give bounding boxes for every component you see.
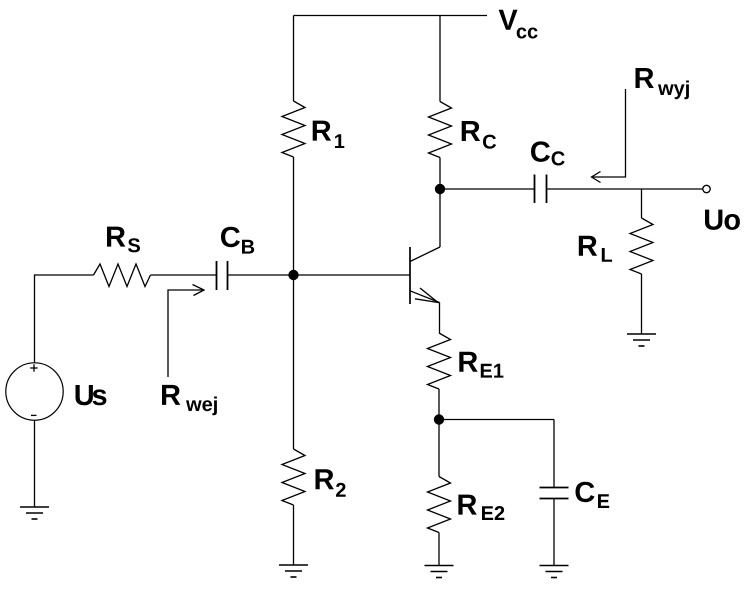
wire RC top [439, 16, 441, 102]
wire RC bottom to collector node [439, 158, 441, 190]
label CC [531, 141, 565, 165]
wire CE top [553, 420, 555, 488]
resistor RC [429, 102, 452, 158]
wire RS right to CB [151, 274, 217, 276]
ground below Us [20, 507, 49, 519]
label Us [76, 385, 107, 405]
wire emitter node to RE2 [438, 420, 440, 477]
wire CE bottom [553, 499, 555, 566]
voltage source Us [6, 363, 63, 420]
label CB [221, 227, 254, 254]
wire R2 bottom [293, 505, 295, 565]
resistor RL [630, 218, 653, 274]
node base junction [288, 270, 298, 280]
label RS [107, 227, 140, 253]
resistor R1 [282, 101, 305, 157]
node emitter junction [434, 414, 444, 424]
arrow Rwej input-resistance pointer [168, 285, 204, 378]
node collector junction [435, 184, 445, 194]
ground below R2 [279, 565, 308, 577]
capacitor CC [535, 175, 547, 204]
wire Vcc top rail [294, 15, 488, 17]
wire emitter node to CE [439, 419, 554, 421]
ground below CE [540, 566, 569, 578]
wire base node to R2 [293, 275, 295, 449]
wire RL bottom [641, 274, 643, 334]
label RL [579, 236, 612, 262]
wire collector [439, 189, 441, 247]
wire R1 top [293, 16, 295, 102]
transistor Q1 [410, 247, 440, 304]
minus sign [31, 414, 37, 416]
label CE [576, 482, 610, 508]
wire source bottom [34, 420, 36, 507]
arrow Rwyj output-resistance pointer [592, 89, 626, 183]
label RE2 [458, 495, 504, 520]
wire base [228, 274, 411, 276]
label RE1 [459, 352, 503, 378]
ground below RE2 [425, 566, 454, 578]
wire RS left to source [35, 275, 94, 363]
plus sign [30, 364, 37, 371]
wire R1 bottom to base node [293, 157, 295, 275]
wire RL top [641, 189, 643, 218]
wire collector node to CC [440, 188, 535, 190]
resistor R2 [282, 449, 305, 505]
label Vcc [499, 10, 538, 39]
label Uo [705, 210, 740, 230]
label R2 [316, 469, 346, 497]
wire RE1 to emitter node [438, 389, 440, 420]
resistor RE2 [428, 477, 451, 533]
capacitor CB [217, 261, 228, 290]
label Rwej [162, 385, 217, 415]
wire CC to output terminal [547, 188, 703, 190]
ground below RL [627, 334, 656, 346]
capacitor CE [540, 488, 569, 499]
resistor RS [94, 264, 151, 287]
label Rwyj [636, 68, 689, 99]
resistor RE1 [428, 333, 451, 389]
wire RE2 bottom [438, 533, 440, 566]
terminal Uo output [703, 185, 710, 192]
wire emitter [439, 303, 441, 334]
label RC [462, 121, 496, 149]
label R1 [313, 121, 345, 148]
